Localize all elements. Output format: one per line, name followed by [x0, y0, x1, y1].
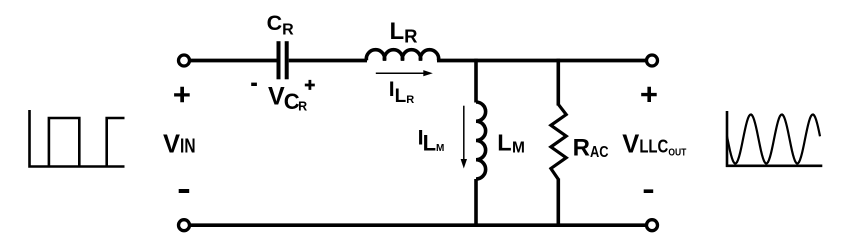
- wire L_M branch bottom: [474, 179, 478, 227]
- svg-text:VIN: VIN: [163, 131, 196, 159]
- svg-text:ILR: ILR: [389, 78, 414, 107]
- label + (V_IN positive): [174, 87, 190, 103]
- terminal bottom-left: [179, 220, 190, 231]
- wire top rail: [190, 59, 277, 63]
- terminal top-left: [179, 55, 190, 66]
- current arrow I_LR: [376, 70, 433, 76]
- terminal top-right: [647, 55, 658, 66]
- current arrow I_LM: [461, 106, 467, 169]
- label - (V_IN negative): [179, 189, 190, 193]
- inductor L_M: [476, 102, 486, 179]
- svg-text:LM: LM: [497, 130, 525, 157]
- wire capacitor to inductor: [289, 59, 367, 63]
- output waveform icon (sine): [726, 111, 823, 167]
- label - (capacitor left polarity): [251, 83, 257, 86]
- wire R_AC branch bottom: [556, 179, 560, 227]
- svg-text:VLLCOUT: VLLCOUT: [622, 130, 686, 158]
- capacitor C_R: [279, 41, 287, 79]
- input waveform icon (square wave): [28, 110, 124, 167]
- svg-text:ILM: ILM: [418, 126, 445, 156]
- wire R_AC branch top: [556, 59, 560, 106]
- terminal bottom-right: [647, 220, 658, 231]
- wire L_M branch top: [474, 59, 478, 103]
- wire bottom rail: [190, 223, 646, 227]
- label + (capacitor right polarity): [305, 80, 315, 90]
- resistor R_AC: [551, 104, 566, 179]
- inductor L_R: [366, 50, 438, 61]
- svg-text:CR: CR: [267, 11, 295, 39]
- label - (output negative): [644, 189, 654, 193]
- label + (output positive): [641, 87, 657, 102]
- svg-text:VCR: VCR: [268, 82, 307, 114]
- wire inductor to top-right terminal: [437, 59, 646, 63]
- svg-text:RAC: RAC: [573, 135, 609, 162]
- svg-text:LR: LR: [390, 18, 418, 47]
